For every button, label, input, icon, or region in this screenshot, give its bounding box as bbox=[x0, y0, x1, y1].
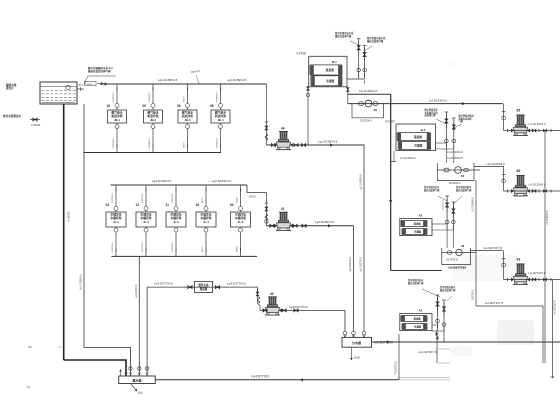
svg-text:D108X4.0: D108X4.0 bbox=[217, 137, 219, 148]
svg-text:DN70: DN70 bbox=[184, 96, 186, 102]
svg-text:D133X4.0: D133X4.0 bbox=[113, 91, 115, 102]
svg-text:LH-D159X4.5: LH-D159X4.5 bbox=[546, 210, 549, 225]
svg-text:D133X4.0: D133X4.0 bbox=[112, 192, 114, 203]
svg-text:Lg1-D377X10: Lg1-D377X10 bbox=[360, 257, 363, 272]
svg-text:DN80: DN80 bbox=[237, 246, 239, 252]
svg-text:Lg2-D133X4.0: Lg2-D133X4.0 bbox=[152, 179, 172, 183]
svg-text:FL: FL bbox=[27, 385, 31, 389]
svg-text:E-1: E-1 bbox=[79, 84, 84, 87]
svg-text:D273X7.8: D273X7.8 bbox=[443, 199, 445, 210]
svg-text:D108X4.0: D108X4.0 bbox=[149, 137, 151, 148]
svg-text:DN70: DN70 bbox=[202, 197, 204, 203]
svg-text:09: 09 bbox=[143, 104, 147, 108]
svg-text:Lh1-D159X4.5: Lh1-D159X4.5 bbox=[80, 274, 83, 290]
svg-text:DN70: DN70 bbox=[202, 246, 204, 252]
svg-text:D133X4.0: D133X4.0 bbox=[172, 241, 174, 252]
svg-text:D133X4.0: D133X4.0 bbox=[112, 241, 114, 252]
svg-text:Lg1-D159X4.5: Lg1-D159X4.5 bbox=[158, 78, 178, 82]
svg-text:LG-D133X4.0: LG-D133X4.0 bbox=[400, 156, 416, 160]
svg-text:06: 06 bbox=[210, 104, 214, 108]
svg-text:A2: A2 bbox=[418, 214, 422, 218]
svg-text:Lg-D377X10: Lg-D377X10 bbox=[135, 284, 138, 298]
svg-text:LH-D133X4.0: LH-D133X4.0 bbox=[529, 183, 546, 187]
svg-text:DN70: DN70 bbox=[184, 142, 186, 148]
svg-text:05: 05 bbox=[177, 104, 181, 108]
svg-text:D133X4.0: D133X4.0 bbox=[449, 181, 461, 185]
svg-text:JB-4: JB-4 bbox=[217, 118, 224, 122]
svg-text:LG-D133X4.0: LG-D133X4.0 bbox=[359, 89, 378, 93]
svg-text:冷凝器: 冷凝器 bbox=[326, 79, 334, 83]
svg-text:JL-2: JL-2 bbox=[143, 220, 149, 224]
svg-text:54: 54 bbox=[461, 174, 465, 178]
svg-text:D133X4.0: D133X4.0 bbox=[113, 137, 115, 148]
svg-text:Lg3-D377X10: Lg3-D377X10 bbox=[289, 305, 308, 309]
svg-text:冷水机组: 冷水机组 bbox=[296, 51, 307, 55]
svg-text:DN80: DN80 bbox=[237, 197, 239, 203]
svg-text:LH-D273X7.8: LH-D273X7.8 bbox=[485, 301, 504, 305]
svg-text:JL-4: JL-4 bbox=[203, 220, 209, 224]
svg-text:≡≡: ≡≡ bbox=[28, 345, 32, 349]
svg-text:40: 40 bbox=[270, 292, 274, 296]
svg-text:≈≈: ≈≈ bbox=[58, 345, 62, 349]
svg-text:循环水处: 循环水处 bbox=[198, 283, 209, 287]
svg-text:LG-D133X4.0: LG-D133X4.0 bbox=[447, 150, 463, 154]
svg-text:04: 04 bbox=[106, 203, 110, 207]
svg-text:B-1: B-1 bbox=[332, 60, 337, 64]
svg-text:LG-D377X10: LG-D377X10 bbox=[449, 265, 467, 269]
svg-text:B-4: B-4 bbox=[421, 128, 426, 132]
svg-text:分水器: 分水器 bbox=[352, 340, 362, 345]
svg-text:LG-D159X4.5: LG-D159X4.5 bbox=[472, 197, 475, 212]
svg-text:65: 65 bbox=[517, 169, 521, 173]
svg-text:D108X4.0: D108X4.0 bbox=[217, 91, 219, 102]
svg-text:16: 16 bbox=[196, 203, 200, 207]
svg-text:软化水装置进水: 软化水装置进水 bbox=[3, 114, 22, 118]
svg-text:Lg2-D377X10: Lg2-D377X10 bbox=[349, 257, 352, 272]
svg-text:44: 44 bbox=[281, 126, 285, 130]
svg-text:65: 65 bbox=[517, 109, 521, 113]
svg-text:蒸发器: 蒸发器 bbox=[325, 68, 334, 72]
svg-text:48: 48 bbox=[374, 108, 378, 112]
svg-text:JB-1: JB-1 bbox=[114, 118, 121, 122]
svg-text:JB-3: JB-3 bbox=[184, 118, 191, 122]
svg-text:D377X10: D377X10 bbox=[472, 289, 475, 300]
svg-text:LH-D133X4.0: LH-D133X4.0 bbox=[529, 122, 546, 126]
svg-text:43: 43 bbox=[517, 258, 521, 262]
svg-text:蒸发器: 蒸发器 bbox=[413, 135, 422, 139]
svg-text:LH-D273X7.8: LH-D273X7.8 bbox=[529, 271, 546, 275]
svg-text:Lg1-D159X4.5: Lg1-D159X4.5 bbox=[318, 139, 338, 143]
svg-text:DN70: DN70 bbox=[249, 195, 256, 199]
svg-text:LG-D159X4.5: LG-D159X4.5 bbox=[447, 156, 463, 160]
svg-text:03: 03 bbox=[230, 203, 234, 207]
svg-text:— Lg2-D159X4.0: — Lg2-D159X4.0 bbox=[208, 179, 232, 183]
svg-text:理装置: 理装置 bbox=[200, 287, 208, 291]
svg-text:D108X4.0: D108X4.0 bbox=[149, 91, 151, 102]
svg-text:集水器: 集水器 bbox=[131, 378, 142, 383]
svg-text:2h00: 2h00 bbox=[354, 356, 360, 360]
svg-text:最高处设自动排气阀: 最高处设自动排气阀 bbox=[88, 69, 111, 73]
svg-text:D133X4.0: D133X4.0 bbox=[172, 192, 174, 203]
svg-text:P-DN25: P-DN25 bbox=[85, 84, 93, 86]
svg-text:LH-D133X4.0: LH-D133X4.0 bbox=[429, 98, 448, 102]
svg-text:JB-2: JB-2 bbox=[150, 118, 157, 122]
svg-text:Lg2-D159X4.0: Lg2-D159X4.0 bbox=[315, 220, 335, 224]
svg-text:LH-D273X7.8: LH-D273X7.8 bbox=[484, 246, 503, 250]
svg-text:Fz-DN25: Fz-DN25 bbox=[67, 211, 71, 222]
svg-text:D273X7.8: D273X7.8 bbox=[446, 258, 458, 262]
svg-text:41: 41 bbox=[281, 207, 285, 211]
svg-text:11: 11 bbox=[166, 203, 170, 207]
svg-text:Lh3-D377X10: Lh3-D377X10 bbox=[154, 282, 173, 286]
svg-text:FT-D377X10: FT-D377X10 bbox=[395, 361, 398, 375]
svg-text:D133X4.0: D133X4.0 bbox=[142, 241, 144, 252]
svg-text:Lg1-D159X4.5: Lg1-D159X4.5 bbox=[227, 78, 247, 82]
svg-text:10: 10 bbox=[107, 104, 111, 108]
svg-text:冷凝器: 冷凝器 bbox=[414, 144, 422, 148]
svg-text:LH-D133X4.0: LH-D133X4.0 bbox=[487, 162, 506, 166]
svg-text:泄水: 泄水 bbox=[138, 391, 143, 395]
svg-text:液位计: 液位计 bbox=[6, 86, 14, 90]
svg-text:D133X4.0: D133X4.0 bbox=[360, 119, 372, 123]
svg-text:12: 12 bbox=[136, 203, 140, 207]
svg-text:A1: A1 bbox=[418, 309, 422, 313]
svg-text:LH-D377X10: LH-D377X10 bbox=[251, 374, 270, 378]
svg-text:LH-D273X7.8: LH-D273X7.8 bbox=[419, 350, 438, 354]
svg-text:D133X4.0: D133X4.0 bbox=[142, 192, 144, 203]
svg-text:Lg3-D377X10: Lg3-D377X10 bbox=[227, 282, 246, 286]
svg-text:JL-3: JL-3 bbox=[173, 220, 179, 224]
svg-text:冷水机组: 冷水机组 bbox=[385, 119, 395, 123]
svg-text:46: 46 bbox=[461, 244, 465, 248]
svg-text:JL-5: JL-5 bbox=[238, 220, 244, 224]
svg-text:Lg1-D159X4.5: Lg1-D159X4.5 bbox=[360, 174, 363, 190]
svg-text:JL-1: JL-1 bbox=[113, 220, 119, 224]
svg-text:LH-D273X7.8: LH-D273X7.8 bbox=[554, 300, 557, 315]
svg-text:P-DN20: P-DN20 bbox=[31, 123, 41, 127]
